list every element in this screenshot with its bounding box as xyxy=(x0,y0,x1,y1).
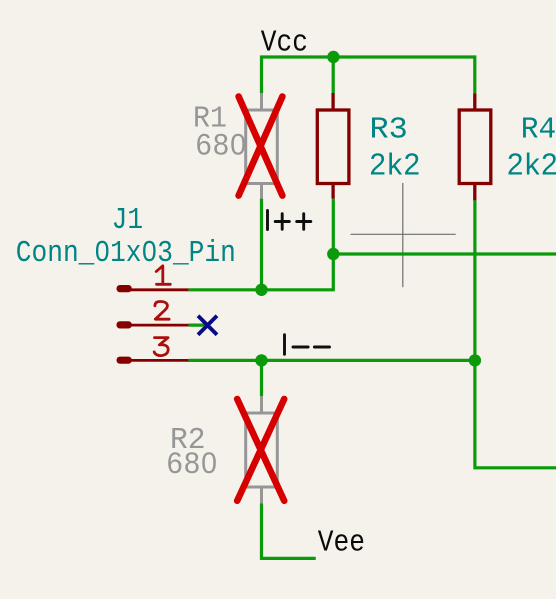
svg-text:2k2: 2k2 xyxy=(370,148,422,182)
svg-text:Vcc: Vcc xyxy=(261,25,308,60)
svg-text:J1: J1 xyxy=(112,202,143,237)
svg-text:Conn_01x03_Pin: Conn_01x03_Pin xyxy=(16,235,236,270)
svg-text:R4: R4 xyxy=(521,113,556,148)
svg-text:Vee: Vee xyxy=(318,525,365,560)
svg-text:680: 680 xyxy=(167,448,218,481)
svg-text:2k2: 2k2 xyxy=(507,148,556,182)
svg-text:R3: R3 xyxy=(370,113,408,147)
svg-text:680: 680 xyxy=(196,129,247,162)
